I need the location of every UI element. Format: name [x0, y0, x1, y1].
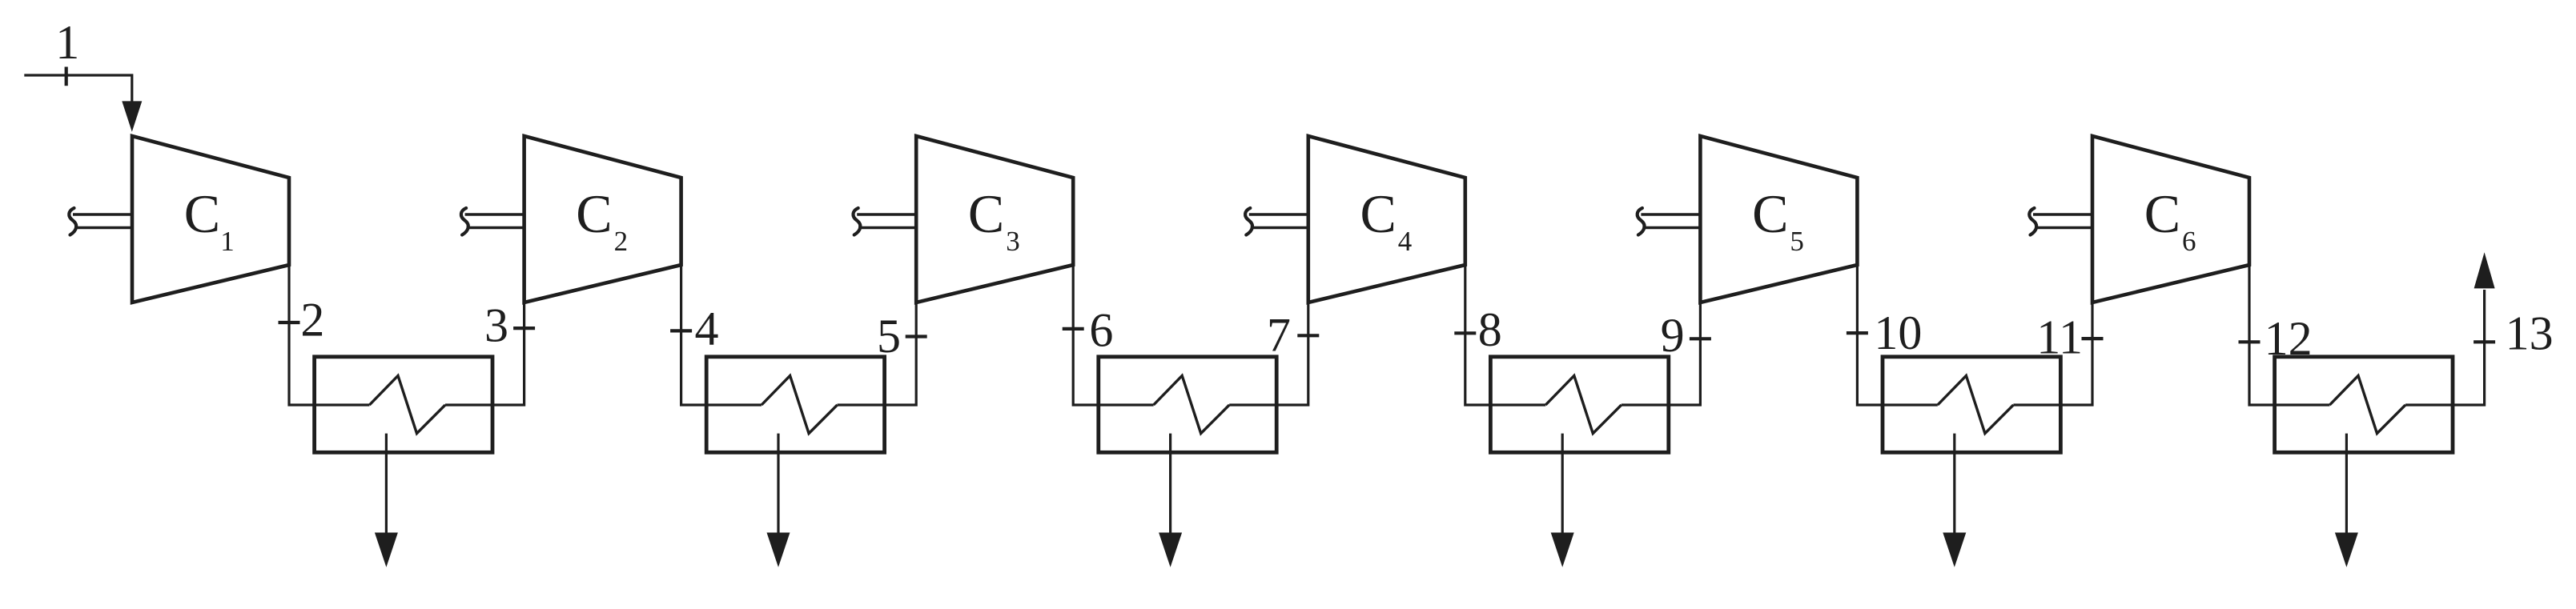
wire stream 2 (C1 outlet down into cooler): [289, 265, 369, 405]
svg-text:10: 10: [1874, 307, 1922, 359]
compressor C6: [2092, 136, 2249, 302]
svg-text:4: 4: [1398, 226, 1413, 257]
tick stream 8: [1454, 331, 1476, 335]
svg-text:C: C: [2144, 183, 2180, 244]
svg-text:2: 2: [614, 226, 629, 257]
svg-text:3: 3: [1006, 226, 1020, 257]
arrow HX4 drain (down): [1551, 533, 1574, 567]
arrow HX6 drain (down): [2335, 533, 2358, 567]
shaft (work input) of C1: [69, 208, 132, 235]
compressor C4: [1308, 136, 1465, 302]
shaft (work input) of C4: [1245, 208, 1308, 235]
wire stream 4 (C2 outlet down into cooler): [681, 265, 762, 405]
wire stream 5 (cooler to C3 inlet): [838, 302, 917, 405]
arrow HX1 drain (down): [375, 533, 398, 567]
wire HX2 coolant drain: [777, 434, 779, 535]
svg-text:9: 9: [1661, 309, 1685, 362]
svg-text:6: 6: [1089, 304, 1113, 357]
wire stream 3 (cooler to C2 inlet): [445, 302, 524, 405]
label C1: [184, 183, 235, 257]
svg-text:8: 8: [1478, 303, 1502, 356]
label C5: [1752, 183, 1804, 257]
HX4 coil zigzag: [1545, 375, 1622, 433]
svg-text:C: C: [184, 183, 220, 244]
wire stream 7 (cooler to C4 inlet): [1229, 302, 1308, 405]
wire HX1 coolant drain: [385, 434, 388, 535]
svg-text:13: 13: [2506, 307, 2554, 359]
intercooler HX6: [2275, 357, 2453, 453]
compressor C1: [132, 136, 289, 302]
wire stream 13 (final product riser): [2405, 290, 2485, 405]
wire stream 9 (cooler to C5 inlet): [1622, 302, 1701, 405]
label C6: [2144, 183, 2196, 257]
shaft (work input) of C3: [853, 208, 916, 235]
HX2 coil zigzag: [762, 375, 838, 433]
arrow HX3 drain (down): [1159, 533, 1182, 567]
wire stream 8 (C4 outlet down into cooler): [1465, 265, 1545, 405]
tick stream 10: [1847, 331, 1868, 335]
label C3: [968, 183, 1020, 257]
svg-text:C: C: [1360, 183, 1397, 244]
arrow HX2 drain (down): [767, 533, 790, 567]
svg-text:C: C: [1752, 183, 1788, 244]
wire stream 1 (feed into C1): [24, 75, 132, 105]
tick stream 9: [1690, 337, 1711, 340]
tick stream 1: [65, 67, 68, 86]
svg-text:11: 11: [2036, 311, 2083, 364]
label C4: [1360, 183, 1413, 257]
intercooler HX4: [1490, 357, 1668, 453]
wire HX4 coolant drain: [1561, 434, 1564, 535]
shaft (work input) of C5: [1638, 208, 1701, 235]
compressor C5: [1700, 136, 1857, 302]
intercooler HX3: [1099, 357, 1276, 453]
arrow stream 1 into C1 inlet: [122, 101, 142, 131]
compressor C3: [916, 136, 1073, 302]
tick stream 2: [279, 321, 300, 324]
svg-text:1: 1: [220, 226, 235, 257]
tick stream 5: [906, 335, 927, 338]
svg-text:C: C: [968, 183, 1004, 244]
svg-text:1: 1: [55, 16, 79, 69]
tick stream 3: [513, 327, 535, 330]
wire stream 10 (C5 outlet down into cooler): [1857, 265, 1937, 405]
HX5 coil zigzag: [1938, 375, 2014, 433]
HX3 coil zigzag: [1154, 375, 1230, 433]
tick stream 6: [1063, 327, 1084, 331]
svg-text:5: 5: [877, 310, 901, 363]
HX6 coil zigzag: [2329, 375, 2405, 433]
intercooler HX1: [315, 357, 492, 453]
tick stream 12: [2239, 340, 2261, 343]
wire stream 11 (cooler to C6 inlet): [2013, 302, 2092, 405]
intercooler HX5: [1883, 357, 2060, 453]
compressor C2: [524, 136, 681, 302]
svg-text:7: 7: [1267, 309, 1291, 362]
wire stream 6 (C3 outlet down into cooler): [1073, 265, 1153, 405]
wire stream 12 (C6 outlet down into cooler): [2249, 265, 2329, 405]
label C2: [576, 183, 628, 257]
arrow HX5 drain (down): [1943, 533, 1966, 567]
arrow stream 13 (up): [2474, 252, 2495, 288]
svg-text:2: 2: [300, 293, 324, 346]
wire HX3 coolant drain: [1169, 434, 1171, 535]
shaft (work input) of C6: [2029, 208, 2092, 235]
tick stream 4: [670, 329, 692, 332]
intercooler HX2: [706, 357, 884, 453]
wire HX6 coolant drain: [2345, 434, 2348, 535]
tick stream 11: [2082, 337, 2104, 340]
wire HX5 coolant drain: [1953, 434, 1955, 535]
svg-text:6: 6: [2182, 226, 2196, 257]
svg-text:3: 3: [484, 298, 508, 351]
svg-text:C: C: [576, 183, 612, 244]
shaft (work input) of C2: [461, 208, 524, 235]
svg-text:4: 4: [695, 302, 719, 355]
tick stream 13: [2474, 340, 2495, 343]
HX1 coil zigzag: [369, 375, 445, 433]
svg-text:5: 5: [1790, 226, 1804, 257]
tick stream 7: [1297, 334, 1319, 337]
